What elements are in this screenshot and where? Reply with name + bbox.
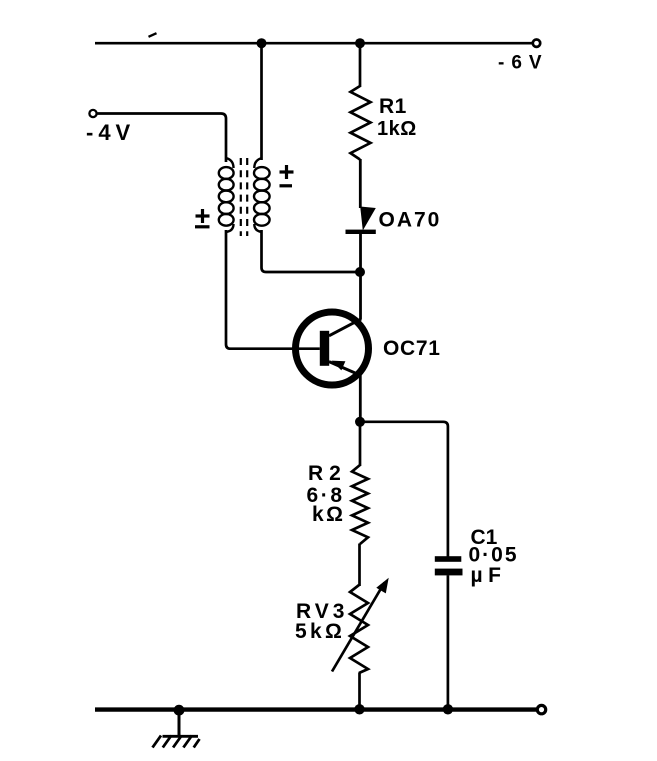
wire diode to collector node <box>359 234 362 272</box>
transistor Q1 OC71 body <box>296 312 369 385</box>
polarity mark - secondary <box>280 184 293 187</box>
transistor Q1 collector lead <box>329 319 361 336</box>
terminal -6V <box>533 40 540 47</box>
diode D1 OA70 cathode bar <box>346 230 376 234</box>
polarity mark + secondary <box>280 165 294 179</box>
wire RV3 to ground rail <box>358 673 361 711</box>
wire emitter node to C1 <box>360 422 448 557</box>
transformer T1 core <box>241 158 247 236</box>
wire C1 to ground rail <box>447 575 450 710</box>
diode D1 OA70 anode triangle <box>360 207 376 231</box>
svg-text:OC71: OC71 <box>383 337 441 360</box>
polarity mark + primary <box>196 209 210 223</box>
svg-text:kΩ: kΩ <box>312 503 346 526</box>
node junction ground symbol <box>174 705 185 716</box>
svg-text:R2: R2 <box>308 462 347 485</box>
terminal -4V <box>89 110 96 117</box>
svg-text:µF: µF <box>471 564 507 587</box>
potentiometer RV3 element <box>350 585 368 673</box>
svg-text:5kΩ: 5kΩ <box>295 620 345 643</box>
wire R2 to RV3 <box>358 544 361 587</box>
wire top rail to R1 <box>359 43 362 87</box>
svg-text:1kΩ: 1kΩ <box>377 118 417 140</box>
potentiometer RV3 wiper arrow head <box>376 578 388 594</box>
wire secondary bottom to diode node <box>262 230 361 272</box>
terminal bottom right <box>537 705 545 713</box>
wire primary bottom to transistor base <box>226 230 320 349</box>
wire emitter to emitter node <box>359 375 362 422</box>
node junction C1 bottom <box>443 704 453 714</box>
potentiometer RV3 wiper arrow shaft <box>332 583 385 672</box>
polarity mark - primary <box>195 225 210 228</box>
svg-text:-4V: -4V <box>86 120 135 145</box>
capacitor C1 bottom plate <box>435 569 463 576</box>
wire -4V terminal to transformer primary <box>97 114 226 163</box>
node junction top R1 <box>355 38 365 48</box>
transistor Q1 emitter arrow (PNP) <box>332 361 346 371</box>
svg-text:R1: R1 <box>379 95 407 118</box>
speck above top rail <box>149 33 157 37</box>
wire R1 to diode <box>359 159 362 208</box>
wire top rail down to secondary <box>260 43 263 160</box>
capacitor C1 top plate <box>435 556 462 562</box>
node junction top transformer <box>257 38 267 48</box>
transistor Q1 emitter lead <box>329 362 360 376</box>
ground stub wire <box>178 710 181 736</box>
ground symbol <box>153 736 200 748</box>
wire node to transistor collector <box>359 272 362 319</box>
resistor R1 <box>351 86 371 160</box>
svg-text:0·05: 0·05 <box>469 543 519 566</box>
node junction diode-secondary-collector <box>355 267 365 277</box>
svg-text:-6V: -6V <box>498 53 549 74</box>
transformer T1 secondary winding <box>254 158 270 232</box>
wire emitter node to R2 <box>359 422 362 466</box>
node junction emitter <box>355 417 365 427</box>
wire top supply rail <box>95 42 532 45</box>
transistor Q1 base bar <box>320 331 329 366</box>
transformer T1 primary winding <box>219 158 234 232</box>
node junction RV3 bottom <box>354 704 364 714</box>
wire bottom ground rail <box>95 707 536 711</box>
resistor R2 <box>352 465 368 544</box>
svg-text:OA70: OA70 <box>379 209 442 232</box>
